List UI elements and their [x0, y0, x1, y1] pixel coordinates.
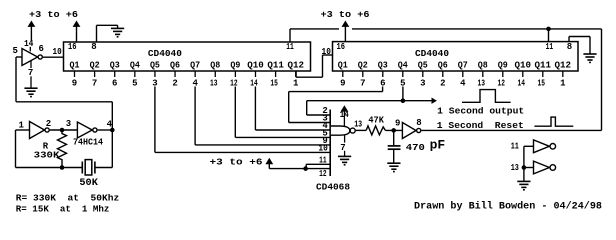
svg-text:Q5: Q5 — [418, 61, 428, 71]
svg-text:Q8: Q8 — [478, 61, 488, 71]
supply arrow to U2 pin 16 — [342, 21, 350, 27]
U1 pin 8 wire — [96, 25, 98, 42]
U1 pin stubs — [74, 71, 76, 77]
svg-text:10: 10 — [53, 47, 62, 57]
U3e output bubble — [550, 144, 556, 150]
wire U3b input — [16, 129, 30, 131]
svg-text:50K: 50K — [79, 178, 98, 189]
node osc B — [110, 128, 115, 133]
wire osc node B down — [111, 130, 113, 168]
wire U4 pin 2 — [306, 101, 308, 115]
svg-text:Q6: Q6 — [170, 61, 180, 71]
supply arrow at U4 pin 14 — [341, 105, 349, 111]
svg-text:1 Second Reset: 1 Second Reset — [437, 121, 524, 131]
wire U4 pin 11 tie — [306, 163, 330, 165]
svg-text:+3 to +6: +3 to +6 — [321, 10, 370, 20]
svg-text:Q10: Q10 — [515, 61, 532, 71]
svg-text:Q11: Q11 — [535, 61, 552, 71]
inverter U3e 74HC14 pin 11 — [534, 140, 550, 153]
U4 CD4068 input bar — [329, 110, 331, 177]
ground at U4 pin 7 — [338, 156, 351, 164]
resistor R 330K — [58, 130, 67, 168]
svg-text:R= 15K at 1 Mhz: R= 15K at 1 Mhz — [16, 204, 110, 214]
U3d output bubble — [417, 128, 421, 132]
svg-text:Q6: Q6 — [438, 61, 448, 71]
U4 output bubble — [350, 128, 355, 133]
wire U3a input — [16, 56, 22, 58]
node supply tie junction — [303, 166, 308, 171]
svg-text:14: 14 — [340, 110, 349, 120]
svg-text:14: 14 — [518, 79, 526, 89]
ground at U2 pin 8 — [583, 54, 596, 62]
wire U4 output — [356, 129, 367, 131]
inverter U3a 74HC14 pins 5-6 — [22, 49, 38, 66]
svg-text:1: 1 — [18, 120, 24, 130]
U3a pin 14 stub — [29, 47, 31, 52]
ground at U3a pin 7 — [24, 88, 37, 96]
svg-text:Q2: Q2 — [90, 61, 100, 71]
U2 pin 11 wire — [548, 29, 550, 42]
svg-text:11: 11 — [511, 142, 520, 152]
svg-text:1: 1 — [293, 79, 299, 89]
svg-text:5: 5 — [132, 79, 137, 89]
U3a pin 7 stub — [30, 60, 32, 68]
svg-text:13: 13 — [354, 120, 362, 130]
wire 47K to inverter — [385, 129, 402, 131]
svg-text:1 Second output: 1 Second output — [437, 106, 524, 116]
svg-text:2: 2 — [172, 79, 177, 89]
svg-text:Q11: Q11 — [267, 61, 284, 71]
svg-text:7: 7 — [28, 68, 33, 78]
svg-text:5: 5 — [12, 46, 17, 56]
svg-text:2: 2 — [46, 119, 51, 129]
svg-text:CD4040: CD4040 — [148, 49, 182, 59]
svg-text:13: 13 — [210, 79, 218, 89]
svg-text:Q1: Q1 — [70, 61, 81, 71]
wire U1 Q9 to U4 pin 5 — [234, 87, 236, 138]
svg-text:330K: 330K — [34, 150, 60, 160]
resistor R2 47K — [366, 126, 385, 135]
svg-text:47K: 47K — [368, 115, 384, 125]
svg-text:8: 8 — [91, 42, 96, 52]
output arrowhead — [432, 98, 437, 104]
node osc rail junction — [60, 165, 65, 170]
svg-text:11: 11 — [546, 42, 554, 52]
svg-text:13: 13 — [511, 163, 519, 173]
node Q4 output junction — [401, 98, 406, 103]
svg-text:74HC14: 74HC14 — [73, 138, 104, 148]
wire crystal to node B — [95, 167, 112, 169]
svg-text:CD4068: CD4068 — [316, 182, 350, 192]
ground at C1 — [387, 163, 400, 171]
wire 1 second reset — [421, 129, 601, 131]
U1 pin 11 reset wire — [289, 29, 291, 42]
svg-text:Q1: Q1 — [338, 61, 349, 71]
svg-text:Drawn by Bill Bowden - 04/24/9: Drawn by Bill Bowden - 04/24/98 — [414, 200, 602, 212]
supply arrow to U1 pin 16 — [73, 21, 81, 27]
svg-text:+3 to +6: +3 to +6 — [29, 10, 78, 20]
svg-text:Q3: Q3 — [378, 61, 388, 71]
svg-text:7: 7 — [360, 79, 365, 89]
counter U1 CD4040 body — [64, 42, 311, 71]
svg-text:9: 9 — [395, 119, 400, 129]
svg-text:7: 7 — [92, 79, 97, 89]
nand gate U4 CD4068 body — [331, 126, 350, 135]
output waveform pulse — [462, 90, 511, 103]
wire reset right side — [601, 29, 603, 130]
node reset junction at U2 pin 11 — [546, 27, 551, 32]
svg-text:7: 7 — [340, 143, 345, 153]
svg-text:Q3: Q3 — [110, 61, 120, 71]
svg-text:13: 13 — [478, 79, 486, 89]
svg-text:Q4: Q4 — [130, 61, 141, 71]
svg-text:4: 4 — [460, 79, 466, 89]
wire U1 Q7 to U4 pin 9 — [194, 87, 196, 145]
svg-text:15: 15 — [538, 79, 546, 89]
U4 pin 7 stem — [344, 135, 346, 142]
svg-text:Q10: Q10 — [247, 61, 264, 71]
svg-text:2: 2 — [440, 79, 445, 89]
svg-text:Q8: Q8 — [210, 61, 220, 71]
svg-text:R= 330K at 50Khz: R= 330K at 50Khz — [16, 194, 119, 204]
wire spare inputs — [523, 146, 525, 181]
node osc A — [60, 128, 65, 133]
wire U4 pin 12 tie — [269, 168, 330, 170]
U2 pin 8 wire — [568, 37, 570, 42]
svg-text:470: 470 — [406, 143, 425, 153]
svg-text:Q9: Q9 — [498, 61, 508, 71]
node RC junction — [391, 128, 396, 133]
svg-text:Q7: Q7 — [458, 61, 468, 71]
counter U2 CD4040 body — [333, 42, 579, 71]
svg-text:9: 9 — [340, 79, 345, 89]
svg-text:15: 15 — [270, 79, 278, 89]
svg-text:14: 14 — [250, 79, 258, 89]
wire U3b output to U3c — [50, 129, 78, 131]
svg-text:14: 14 — [24, 39, 34, 49]
supply arrow to 74HC14 pin 14 — [28, 21, 36, 27]
svg-text:12: 12 — [498, 79, 506, 89]
svg-text:8: 8 — [567, 42, 572, 52]
inverter U3b 74HC14 pins 1-2 — [30, 122, 45, 139]
wire U3c output — [98, 129, 113, 131]
svg-text:Q5: Q5 — [150, 61, 160, 71]
wire U2 Q3 to U4 pin 3 — [382, 87, 384, 92]
U4 pin 14 stem — [343, 109, 345, 126]
svg-text:pF: pF — [430, 138, 446, 153]
svg-text:16: 16 — [337, 42, 346, 52]
svg-text:12: 12 — [230, 79, 238, 89]
svg-text:CD4040: CD4040 — [415, 49, 449, 59]
wire U1 Q10 to U4 pin 4 — [254, 87, 256, 131]
svg-text:3: 3 — [66, 119, 71, 129]
ground at U1 pin 8 — [111, 28, 124, 36]
svg-text:11: 11 — [286, 42, 294, 52]
wire feedback from oscillator — [16, 101, 112, 103]
svg-text:12: 12 — [319, 169, 327, 179]
capacitor C1 470 pF — [393, 130, 395, 145]
svg-text:8: 8 — [416, 118, 421, 128]
U2 pin stubs — [342, 71, 344, 77]
svg-text:10: 10 — [322, 47, 331, 57]
wire U1 Q5 to U4 pin 10 — [154, 87, 156, 153]
wire U2 Q4 output line — [402, 87, 404, 101]
svg-text:Q7: Q7 — [190, 61, 200, 71]
svg-text:Q2: Q2 — [358, 61, 368, 71]
svg-text:Q4: Q4 — [398, 61, 409, 71]
svg-text:Q12: Q12 — [287, 61, 304, 71]
svg-text:3: 3 — [420, 79, 425, 89]
U3f output bubble — [550, 165, 556, 171]
svg-text:6: 6 — [112, 79, 117, 89]
wire U3a output to U1 pin 10 — [43, 56, 64, 58]
reset waveform pulse — [534, 117, 573, 126]
svg-text:1: 1 — [560, 79, 566, 89]
inverter U3f 74HC14 pin 13 — [534, 161, 550, 174]
wire U1 Q12 to U2 pin 10 — [295, 71, 297, 77]
U3a output bubble — [38, 55, 42, 59]
node spare tie — [522, 165, 527, 170]
ground at spare inverters — [517, 181, 530, 189]
inverter U3c 74HC14 pins 3-4 — [77, 122, 92, 138]
svg-text:Q12: Q12 — [555, 61, 572, 71]
svg-text:6: 6 — [38, 44, 43, 54]
U3b output bubble — [45, 128, 49, 132]
inverter U3d 74HC14 pins 9-8 — [402, 123, 416, 139]
U3c output bubble — [93, 128, 97, 132]
svg-text:10: 10 — [318, 144, 327, 154]
crystal Y1 50K — [81, 162, 83, 174]
svg-text:Q9: Q9 — [230, 61, 240, 71]
supply arrow to U4 pins 11-12 — [265, 158, 273, 164]
wire osc rail — [16, 167, 82, 169]
svg-text:9: 9 — [72, 79, 77, 89]
svg-text:+3 to +6: +3 to +6 — [210, 158, 263, 168]
svg-text:16: 16 — [68, 42, 77, 52]
